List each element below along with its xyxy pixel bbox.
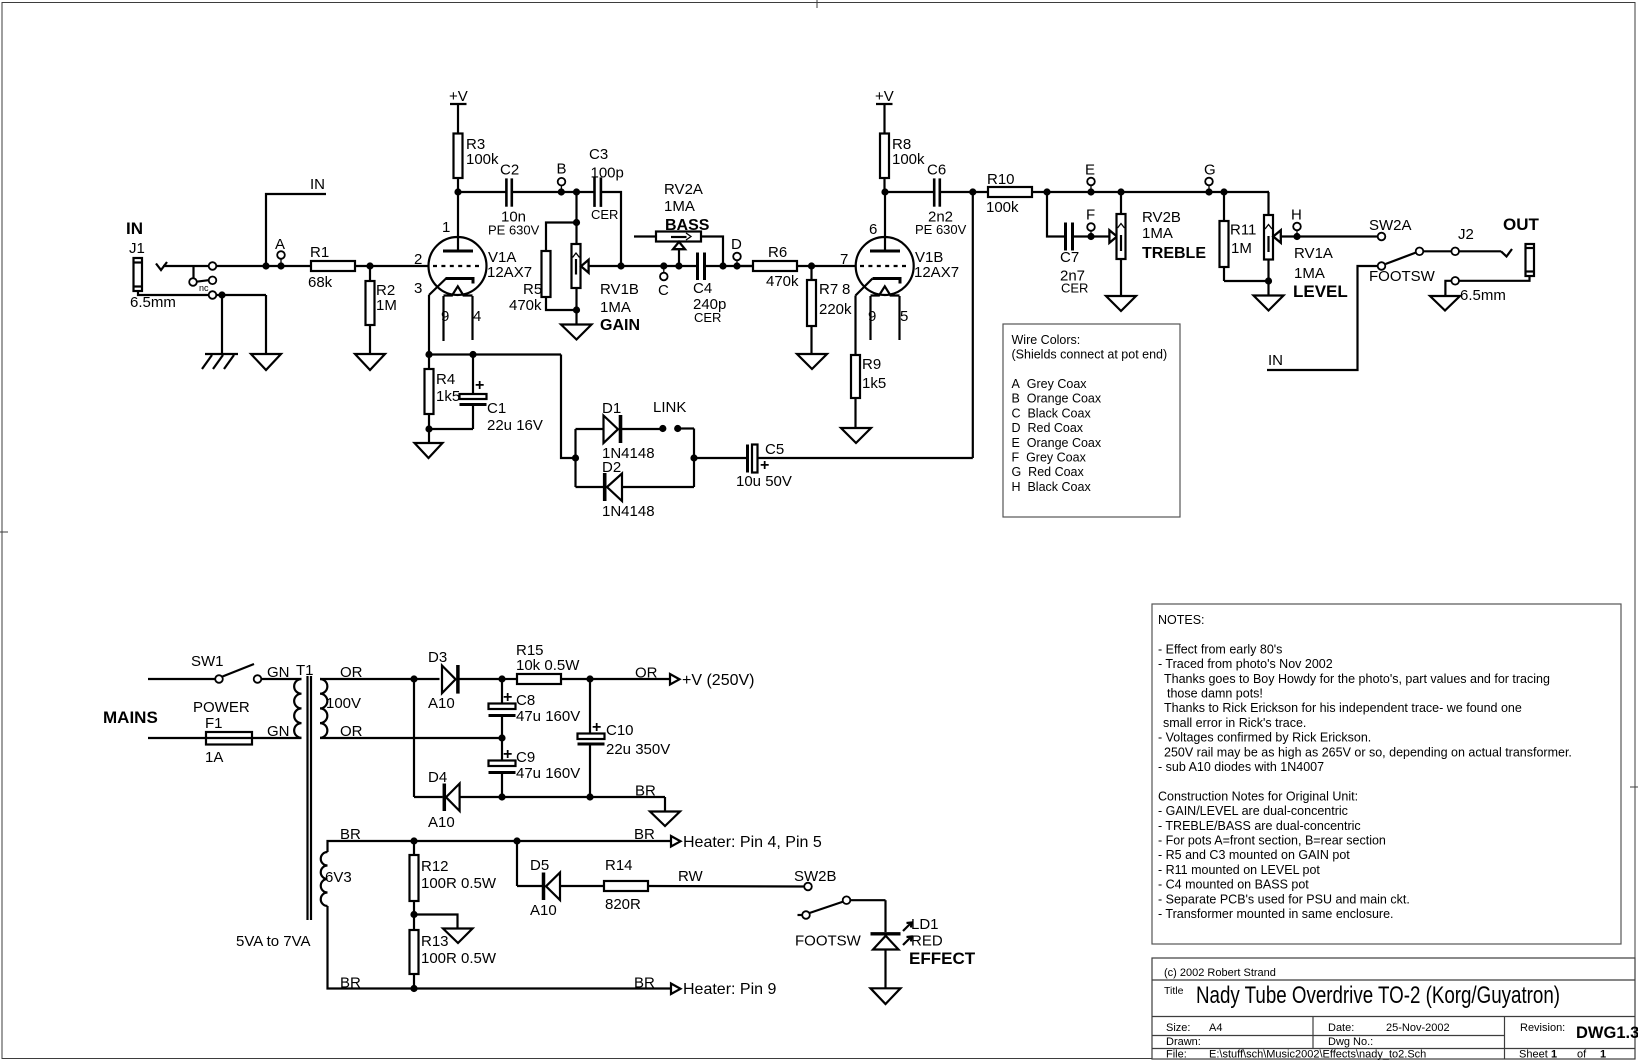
svg-text:1MA: 1MA (664, 198, 695, 215)
svg-text:F1: F1 (205, 715, 223, 732)
svg-text:1: 1 (1600, 1049, 1606, 1061)
svg-text:OR: OR (635, 665, 658, 682)
cathode rail wire (429, 353, 561, 355)
svg-text:C Black Coax: C Black Coax (1012, 406, 1092, 420)
svg-text:C7: C7 (1060, 249, 1079, 266)
svg-text:RV2B: RV2B (1142, 209, 1181, 226)
svg-text:A10: A10 (428, 695, 455, 712)
svg-text:2: 2 (414, 251, 422, 268)
svg-text:LEVEL: LEVEL (1293, 282, 1348, 301)
svg-text:1k5: 1k5 (436, 388, 460, 405)
svg-text:RV1A: RV1A (1294, 245, 1333, 262)
svg-text:B Orange Coax: B Orange Coax (1012, 392, 1102, 406)
svg-text:100R 0.5W: 100R 0.5W (421, 875, 497, 892)
svg-text:G Red Coax: G Red Coax (1012, 465, 1085, 479)
svg-text:small error in Rick's trace.: small error in Rick's trace. (1163, 716, 1306, 730)
svg-text:100k: 100k (986, 199, 1019, 216)
svg-text:100p: 100p (591, 165, 624, 182)
svg-text:22u 350V: 22u 350V (606, 741, 670, 758)
svg-text:+: + (475, 377, 484, 394)
svg-text:IN: IN (126, 219, 143, 238)
ground (R7) (797, 354, 827, 369)
svg-text:1: 1 (442, 219, 450, 236)
wire (R1 to V1A grid) (355, 265, 429, 267)
junction (R12 top) (410, 837, 417, 844)
wire (sleeve to grounds) (221, 295, 223, 354)
potentiometer RV2B (TREBLE) (1109, 188, 1206, 296)
link jumper (659, 425, 666, 432)
svg-text:Construction Notes for Origina: Construction Notes for Original Unit: (1158, 789, 1358, 803)
svg-text:RV1B: RV1B (600, 281, 639, 298)
wire (RV1B wiper line) (589, 265, 698, 267)
svg-text:R5: R5 (523, 281, 542, 298)
resistor R15 (517, 674, 561, 684)
potentiometer RV2A (BASS) (634, 181, 723, 266)
svg-text:6: 6 (869, 221, 877, 238)
svg-text:D: D (731, 236, 742, 253)
svg-text:A4: A4 (1209, 1022, 1222, 1034)
junction (V1A plate node) (454, 188, 461, 195)
resistor R6 (737, 265, 753, 267)
svg-text:R12: R12 (421, 858, 449, 875)
wire (+V output) (590, 678, 669, 680)
ground (R2) (355, 354, 385, 370)
svg-text:SW2B: SW2B (794, 868, 837, 885)
capacitor C4 (693, 253, 726, 326)
svg-text:C8: C8 (516, 692, 535, 709)
svg-text:CER: CER (694, 310, 721, 325)
svg-text:E Orange Coax: E Orange Coax (1012, 436, 1102, 450)
svg-text:CER: CER (591, 207, 618, 222)
heater arrow (pins 4,5) (671, 836, 681, 847)
wire (100V top OR) (320, 678, 440, 680)
svg-text:C10: C10 (606, 722, 634, 739)
ground (R4/C1) (415, 443, 443, 458)
svg-text:R14: R14 (605, 857, 633, 874)
svg-text:5: 5 (900, 308, 908, 325)
junction (C7 branch) (1043, 188, 1050, 195)
svg-text:R11: R11 (1230, 222, 1256, 239)
resistor R9 (851, 355, 860, 398)
junction (C10 bottom) (586, 793, 593, 800)
svg-text:FOOTSW: FOOTSW (795, 933, 862, 950)
svg-text:DWG1.3: DWG1.3 (1576, 1024, 1638, 1042)
svg-text:SW2A: SW2A (1369, 217, 1412, 234)
svg-text:+V: +V (875, 88, 894, 105)
svg-text:Heater: Pin 9: Heater: Pin 9 (683, 981, 776, 998)
svg-text:C5: C5 (765, 441, 784, 458)
svg-text:RV2A: RV2A (664, 181, 703, 198)
BR return rail (502, 796, 665, 798)
switch SW2B (footswitch pole B) (794, 868, 886, 950)
svg-text:- Effect from early 80's: - Effect from early 80's (1158, 642, 1282, 656)
svg-text:C2: C2 (500, 162, 519, 179)
capacitor C6 (915, 162, 967, 238)
svg-text:R7: R7 (819, 281, 838, 298)
heater arrow (pin 9) (671, 984, 681, 995)
node C (660, 262, 667, 269)
svg-text:SW1: SW1 (191, 653, 224, 670)
svg-text:- Separate PCB's used for PSU: - Separate PCB's used for PSU and main c… (1158, 892, 1410, 906)
jack switch blade (197, 280, 209, 282)
node IN branch (262, 262, 269, 269)
svg-text:68k: 68k (308, 274, 333, 291)
capacitor C3 (589, 146, 624, 222)
svg-text:- Transformer mounted in same: - Transformer mounted in same enclosure. (1158, 907, 1394, 921)
svg-text:+V (250V): +V (250V) (682, 672, 754, 689)
wire (cathode rail down to link) (561, 355, 576, 459)
svg-text:12AX7: 12AX7 (914, 264, 959, 281)
node F (1087, 233, 1094, 240)
svg-text:Revision:: Revision: (1520, 1022, 1565, 1034)
svg-text:BR: BR (634, 826, 655, 843)
junction (R5/RV1B branch) (573, 188, 580, 195)
title block (1152, 958, 1638, 1061)
svg-text:H: H (1291, 207, 1302, 224)
svg-text:C9: C9 (516, 749, 535, 766)
svg-text:MAINS: MAINS (103, 708, 158, 727)
svg-text:A10: A10 (428, 814, 455, 831)
transformer T1 (236, 662, 361, 950)
junction (RV1B bottom / R5) (573, 306, 580, 313)
svg-text:R1: R1 (310, 244, 329, 261)
diode D1 (1N4148) (576, 400, 660, 462)
svg-text:Wire Colors:: Wire Colors: (1012, 333, 1081, 347)
svg-text:EFFECT: EFFECT (909, 949, 976, 968)
resistor R5 (546, 223, 577, 252)
notes box (1152, 604, 1621, 944)
svg-text:- For pots A=front section, B=: - For pots A=front section, B=rear secti… (1158, 834, 1386, 848)
svg-text:FOOTSW: FOOTSW (1369, 268, 1436, 285)
svg-text:GAIN: GAIN (600, 317, 640, 334)
svg-text:8: 8 (842, 281, 850, 298)
svg-text:IN: IN (310, 176, 325, 193)
svg-text:Drawn:: Drawn: (1166, 1036, 1201, 1048)
svg-text:6V3: 6V3 (325, 869, 352, 886)
junction (D3/D4 left) (410, 675, 417, 682)
svg-text:D4: D4 (428, 769, 447, 786)
ground (R9) (841, 428, 871, 443)
wire (C2 to C3) (512, 191, 595, 193)
svg-text:OUT: OUT (1503, 215, 1540, 234)
fuse F1 (148, 715, 302, 766)
node G (1205, 188, 1212, 195)
svg-text:100k: 100k (466, 151, 499, 168)
svg-text:- C4 mounted on BASS pot: - C4 mounted on BASS pot (1158, 878, 1309, 892)
wire (SW2A throw to J2 tip) (1459, 250, 1501, 252)
wire (plate to C2) (458, 191, 506, 193)
ground (LED) (871, 988, 901, 1004)
diode D5 (A10) (517, 841, 604, 919)
svg-text:- TREBLE/BASS are dual-concent: - TREBLE/BASS are dual-concentric (1158, 819, 1361, 833)
ground (heater CT) (443, 929, 473, 944)
wire (100V bottom OR) (320, 737, 502, 739)
svg-text:820R: 820R (605, 896, 641, 913)
earth ground (J1) (251, 354, 281, 370)
switch SW1 (POWER) (148, 653, 302, 716)
wire (C4 to R6) (705, 265, 754, 267)
pin 3 cathode wire (428, 295, 430, 355)
ground (RV1A/R11) (1254, 296, 1284, 311)
wire (link left rail) (574, 429, 576, 487)
svg-text:3: 3 (414, 280, 422, 297)
resistor R3 (454, 134, 463, 179)
svg-text:(Shields connect at pot end): (Shields connect at pot end) (1012, 348, 1168, 362)
svg-text:Sheet: Sheet (1519, 1049, 1548, 1061)
svg-text:7: 7 (840, 251, 848, 268)
switch SW2A (footswitch pole A) (1369, 217, 1459, 285)
svg-text:+: + (503, 689, 512, 706)
wire (link to C5) (694, 457, 748, 459)
potentiometer RV1B (GAIN) (572, 244, 641, 334)
connector J1 (input jack 6.5mm) (126, 219, 222, 311)
node A (277, 262, 284, 269)
svg-text:BR: BR (635, 783, 656, 800)
resistor R8 (880, 134, 889, 179)
svg-text:CER: CER (1061, 281, 1088, 296)
svg-text:C4: C4 (693, 280, 712, 297)
svg-text:BASS: BASS (665, 217, 710, 234)
svg-text:100k: 100k (892, 151, 925, 168)
resistor R10 (988, 187, 1032, 197)
wire (link right rail) (693, 429, 695, 488)
pin 8 cathode wire (854, 296, 856, 356)
svg-text:NOTES:: NOTES: (1158, 613, 1205, 627)
svg-text:- R11 mounted on LEVEL pot: - R11 mounted on LEVEL pot (1158, 863, 1320, 877)
svg-text:100R 0.5W: 100R 0.5W (421, 950, 497, 967)
svg-text:- R5 and C3 mounted on GAIN po: - R5 and C3 mounted on GAIN pot (1158, 848, 1350, 862)
svg-text:+: + (760, 457, 769, 474)
jack switch contact drop (192, 266, 194, 279)
ground (PSU BR) (664, 797, 666, 812)
capacitor C8 (47u 160V) (489, 679, 581, 738)
resistor R4 (425, 351, 461, 443)
svg-text:B: B (557, 161, 567, 178)
svg-text:LINK: LINK (653, 399, 686, 416)
junction (feedback drop) (969, 188, 976, 195)
svg-text:R6: R6 (768, 244, 787, 261)
svg-text:Title: Title (1164, 985, 1184, 997)
triode V1A (12AX7) (414, 192, 532, 341)
resistor R14 (604, 881, 648, 891)
wire (C5 to feedback riser) (758, 457, 973, 459)
svg-text:9: 9 (441, 308, 449, 325)
svg-text:C: C (658, 282, 669, 299)
svg-text:RW: RW (678, 868, 704, 885)
potentiometer RV1A (LEVEL) (1264, 192, 1378, 301)
svg-text:Date:: Date: (1328, 1022, 1354, 1034)
svg-text:9: 9 (868, 308, 876, 325)
svg-text:+: + (503, 746, 512, 763)
svg-text:Dwg No.:: Dwg No.: (1328, 1036, 1373, 1048)
svg-text:D3: D3 (428, 649, 447, 666)
svg-text:those damn pots!: those damn pots! (1167, 687, 1263, 701)
svg-text:- GAIN/LEVEL are dual-concentr: - GAIN/LEVEL are dual-concentric (1158, 804, 1348, 818)
junction (R7 tap) (808, 262, 815, 269)
junction (D5 branch) (513, 837, 520, 844)
svg-text:PE 630V: PE 630V (915, 222, 967, 237)
svg-text:D5: D5 (530, 857, 549, 874)
wire (down to C7) (1047, 192, 1066, 237)
wire (B to RV1B top) (575, 192, 577, 244)
wire (mid tap to ground) (414, 915, 458, 929)
svg-text:A: A (275, 236, 285, 253)
junction (R2 tap) (366, 262, 373, 269)
svg-text:R10: R10 (987, 171, 1015, 188)
wire (C6 to R10) (940, 191, 988, 193)
svg-text:POWER: POWER (193, 699, 250, 716)
svg-text:1: 1 (1551, 1049, 1557, 1061)
svg-text:IN: IN (1268, 352, 1283, 369)
svg-text:File:: File: (1166, 1049, 1187, 1061)
node D (733, 262, 740, 269)
ground (J2 sleeve) (1430, 296, 1460, 311)
resistor R7 (810, 266, 812, 280)
svg-text:BR: BR (340, 826, 361, 843)
svg-text:D1: D1 (602, 400, 621, 417)
svg-text:1M: 1M (376, 297, 397, 314)
svg-text:D Red Coax: D Red Coax (1012, 421, 1084, 435)
svg-text:C3: C3 (589, 146, 608, 163)
diode D3 (A10) (428, 649, 502, 712)
junction (RV2A right leg) (719, 262, 726, 269)
capacitor C2 (488, 162, 540, 238)
svg-text:C6: C6 (927, 162, 946, 179)
capacitor C7 (1060, 223, 1088, 296)
svg-text:F: F (1086, 207, 1095, 224)
chassis ground (202, 354, 238, 369)
svg-text:220k: 220k (819, 301, 852, 318)
svg-text:OR: OR (340, 723, 363, 740)
svg-text:D2: D2 (602, 459, 621, 476)
wire (C7 to RV2B wiper) (1073, 235, 1110, 237)
svg-text:1N4148: 1N4148 (602, 503, 655, 520)
svg-text:25-Nov-2002: 25-Nov-2002 (1386, 1022, 1450, 1034)
svg-text:nc: nc (199, 283, 209, 293)
resistor R13 (410, 930, 419, 974)
heater winding top lead (328, 841, 672, 852)
capacitor C5 (electrolytic 10u 50V) (736, 441, 792, 490)
diode D2 (1N4148) (576, 459, 695, 520)
resistor R11 (1223, 192, 1225, 221)
svg-text:12AX7: 12AX7 (487, 264, 532, 281)
svg-text:F Grey Coax: F Grey Coax (1012, 451, 1087, 465)
junction (C8/C9 mid) (498, 734, 505, 741)
resistor R1 (311, 261, 355, 271)
svg-text:- Traced from photo's Nov 2002: - Traced from photo's Nov 2002 (1158, 657, 1333, 671)
capacitor C1 (electrolytic 22u 16V) (429, 351, 543, 434)
junction (C10 top) (586, 675, 593, 682)
capacitor C9 (47u 160V) (489, 738, 581, 797)
svg-text:GN: GN (267, 664, 290, 681)
diode D4 (A10) (414, 769, 502, 831)
wire (SW2A pole to IN return) (1267, 266, 1378, 370)
svg-text:E:\stuff\sch\Music2002\Effects: E:\stuff\sch\Music2002\Effects\nady_to2.… (1209, 1049, 1426, 1061)
svg-text:6.5mm: 6.5mm (1460, 287, 1506, 304)
capacitor C10 (22u 350V) (578, 679, 671, 797)
junction (R4 bottom / C1) (425, 425, 432, 432)
svg-text:PE 630V: PE 630V (488, 223, 540, 238)
+V rail symbol (V1B) (875, 88, 894, 134)
resistor R2 (369, 266, 371, 281)
svg-text:470k: 470k (766, 273, 799, 290)
resistor R12 (413, 841, 415, 855)
heater winding bottom lead (328, 906, 672, 989)
svg-text:TREBLE: TREBLE (1142, 245, 1206, 262)
svg-text:1MA: 1MA (600, 299, 631, 316)
junction (C9 bottom) (498, 793, 505, 800)
svg-text:E: E (1085, 162, 1095, 179)
junction (R12/R13 mid) (410, 911, 417, 918)
wire (plate to C6) (885, 191, 934, 193)
junction (C8 top) (498, 675, 505, 682)
svg-text:47u 160V: 47u 160V (516, 765, 580, 782)
svg-text:OR: OR (340, 664, 363, 681)
svg-text:1A: 1A (205, 749, 223, 766)
svg-text:6.5mm: 6.5mm (130, 294, 176, 311)
ground (RV2B) (1106, 296, 1136, 311)
svg-text:1k5: 1k5 (862, 375, 886, 392)
svg-text:Nady Tube Overdrive TO-2 (Korg: Nady Tube Overdrive TO-2 (Korg/Guyatron) (1196, 982, 1560, 1009)
svg-text:10k 0.5W: 10k 0.5W (516, 657, 580, 674)
svg-text:(c) 2002 Robert Strand: (c) 2002 Robert Strand (1164, 967, 1276, 979)
svg-text:LD1: LD1 (911, 916, 939, 933)
svg-text:- Voltages confirmed by Rick E: - Voltages confirmed by Rick Erickson. (1158, 731, 1371, 745)
node H (1293, 233, 1300, 240)
svg-text:4: 4 (473, 308, 481, 325)
svg-text:47u 160V: 47u 160V (516, 708, 580, 725)
node B (558, 188, 565, 195)
junction (R11 tap) (1220, 188, 1227, 195)
junction (R5 top) (573, 219, 580, 226)
LED LD1 (RED) (871, 900, 976, 988)
svg-text:+: + (592, 719, 601, 736)
svg-text:Thanks to Rick Erickson for hi: Thanks to Rick Erickson for his independ… (1164, 701, 1522, 715)
junction (RV2A wiper) (675, 262, 682, 269)
svg-text:BR: BR (634, 975, 655, 992)
svg-text:5VA to 7VA: 5VA to 7VA (236, 933, 311, 950)
node E (1087, 188, 1094, 195)
svg-text:250V rail may be as high as 26: 250V rail may be as high as 265V or so, … (1164, 745, 1572, 759)
junction (V1B plate node) (881, 188, 888, 195)
jack contact circles (209, 262, 217, 270)
triode V1B (12AX7) (840, 192, 959, 340)
svg-text:H Black Coax: H Black Coax (1012, 480, 1092, 494)
svg-text:G: G (1204, 162, 1216, 179)
svg-text:of: of (1577, 1049, 1587, 1061)
wire (J1 tip to R1) (163, 265, 311, 267)
junction (C3 drop) (617, 262, 624, 269)
svg-text:Heater: Pin 4, Pin 5: Heater: Pin 4, Pin 5 (683, 834, 822, 851)
junction (sleeve) (218, 291, 225, 298)
svg-text:A Grey Coax: A Grey Coax (1012, 377, 1088, 391)
svg-text:Thanks goes to Boy Howdy for t: Thanks goes to Boy Howdy for the photo's… (1164, 672, 1550, 686)
wire (C3 to wiper line) (601, 192, 621, 266)
wire (feedback to C5 line) (972, 192, 974, 458)
svg-text:1MA: 1MA (1294, 265, 1325, 282)
svg-text:RED: RED (911, 933, 943, 950)
svg-text:1M: 1M (1231, 240, 1252, 257)
svg-text:- sub A10 diodes with 1N4007: - sub A10 diodes with 1N4007 (1158, 760, 1324, 774)
svg-text:+V: +V (449, 88, 468, 105)
svg-text:A10: A10 (530, 902, 557, 919)
+V rail symbol (V1A) (449, 88, 468, 134)
wire colors note box (1003, 324, 1180, 517)
svg-text:R9: R9 (862, 356, 881, 373)
svg-text:GN: GN (267, 723, 290, 740)
svg-text:R4: R4 (436, 371, 455, 388)
ground (RV1B) (561, 325, 592, 340)
